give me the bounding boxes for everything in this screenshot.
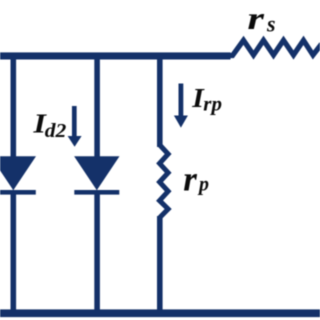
svg-text:d2: d2 [45,119,67,142]
svg-text:r: r [183,159,197,198]
svg-text:rp: rp [203,94,222,115]
svg-text:r: r [247,1,264,37]
svg-text:p: p [197,173,209,196]
svg-text:s: s [266,11,276,37]
